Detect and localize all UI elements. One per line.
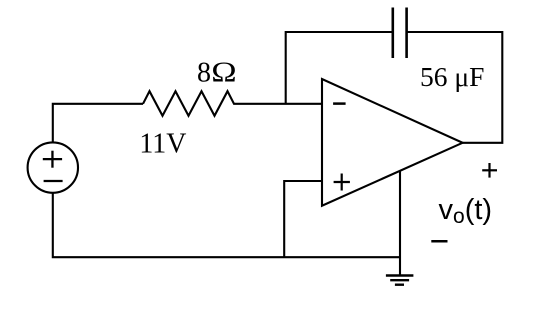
svg-text:56 μF: 56 μF <box>420 61 484 92</box>
svg-text:8: 8 <box>197 58 211 89</box>
svg-text:11V: 11V <box>139 129 186 160</box>
svg-text:vo(t): vo(t) <box>439 194 493 228</box>
svg-text:Ω: Ω <box>211 58 236 89</box>
